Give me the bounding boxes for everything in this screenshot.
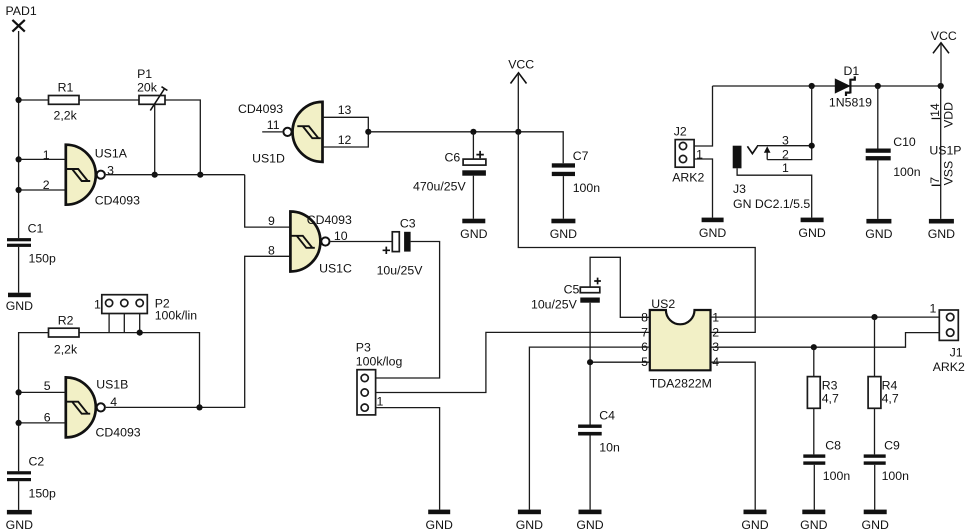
svg-text:C1: C1	[28, 221, 44, 235]
wire J2 bottom pin to ground	[694, 159, 712, 218]
svg-text:7: 7	[928, 177, 942, 184]
svg-text:1: 1	[377, 394, 384, 408]
svg-text:D1: D1	[844, 64, 860, 78]
capacitor C9	[864, 439, 900, 465]
capacitor C3 polarized	[383, 217, 416, 255]
pin 1 wire J3 to ground	[737, 168, 812, 217]
pin 13 and 12 wires tied	[323, 117, 369, 147]
svg-text:GND: GND	[6, 299, 33, 313]
svg-text:2: 2	[43, 178, 50, 192]
svg-text:10u/25V: 10u/25V	[377, 263, 424, 277]
ground under C8	[800, 510, 827, 532]
svg-text:10n: 10n	[599, 440, 620, 454]
svg-text:14: 14	[928, 103, 942, 117]
node junction wiper on output	[152, 172, 158, 178]
svg-text:470u/25V: 470u/25V	[413, 180, 466, 194]
wire C3 to P3 pin top	[376, 242, 440, 379]
node junction C10 tap	[875, 83, 881, 89]
svg-text:100k/log: 100k/log	[356, 354, 403, 368]
svg-text:100n: 100n	[823, 469, 851, 483]
svg-text:2,2k: 2,2k	[54, 343, 78, 357]
svg-text:2: 2	[782, 147, 789, 161]
wire R4 to C9	[874, 408, 876, 454]
wire P3 wiper to US2 pin 7	[376, 332, 650, 392]
ground under P3	[426, 510, 453, 532]
svg-text:J2: J2	[674, 125, 687, 139]
svg-text:20k: 20k	[137, 81, 158, 95]
wire US1A out to US1C pin 9	[245, 175, 291, 227]
ground under C6	[460, 219, 487, 241]
svg-text:5: 5	[641, 355, 648, 369]
svg-text:2: 2	[712, 325, 719, 339]
node junction on US1B output	[196, 404, 202, 410]
pin 3 output wire US1A	[106, 174, 245, 176]
wire C4 to ground	[589, 436, 591, 510]
capacitor C6	[445, 132, 486, 176]
wire J2 top pin up to diode rail	[694, 86, 712, 146]
resistor R1	[49, 80, 80, 104]
connector J3 barrel jack	[733, 146, 771, 196]
svg-text:R4: R4	[882, 379, 898, 393]
vcc symbol left	[508, 58, 534, 84]
svg-text:150p: 150p	[29, 487, 57, 501]
svg-text:100n: 100n	[893, 165, 921, 179]
svg-text:C9: C9	[884, 439, 900, 453]
svg-text:4,7: 4,7	[882, 392, 899, 406]
node junction pin2 tap	[16, 187, 22, 193]
svg-text:11: 11	[267, 118, 280, 132]
svg-text:GND: GND	[798, 226, 825, 240]
capacitor C8	[803, 439, 841, 465]
svg-text:C10: C10	[893, 135, 916, 149]
node junction VCC right	[938, 83, 944, 89]
capacitor C4	[578, 409, 615, 436]
nand gate US1B	[66, 377, 129, 437]
ground under C1	[6, 293, 33, 313]
svg-text:5: 5	[44, 379, 51, 393]
node junction pin 5 tap	[587, 359, 593, 365]
wire C1 to ground	[18, 247, 20, 293]
potentiometer P1	[137, 67, 167, 111]
svg-text:CD4093: CD4093	[307, 213, 352, 227]
node junction US1D inputs	[365, 129, 371, 135]
wire C8 to ground	[813, 465, 815, 510]
svg-text:GND: GND	[576, 518, 603, 532]
node junction VCC tap	[515, 129, 521, 135]
nand gate US1C	[290, 212, 352, 276]
ground pin 4	[741, 510, 768, 532]
power pins US1P	[929, 86, 961, 219]
ground under C10	[865, 219, 892, 241]
pin 11 stub wire	[262, 131, 282, 133]
pin 5 wire US1B	[19, 391, 66, 393]
svg-text:VSS: VSS	[942, 161, 956, 186]
svg-text:US1C: US1C	[319, 262, 352, 276]
svg-text:PAD1: PAD1	[6, 4, 37, 18]
wire P1 wiper down	[154, 104, 156, 174]
svg-text:GND: GND	[865, 227, 892, 241]
svg-text:13: 13	[338, 103, 352, 117]
resistor R2	[49, 314, 80, 338]
svg-text:CD4093: CD4093	[238, 102, 283, 116]
wire US2 pin 1 to J1	[711, 316, 940, 318]
svg-text:C2: C2	[29, 455, 45, 469]
node junction C6 tap	[470, 129, 476, 135]
svg-text:100n: 100n	[882, 469, 910, 483]
wire PAD1 down to C1	[18, 31, 20, 238]
wire US1C pin 8 down to US1B output	[106, 256, 291, 407]
svg-text:1: 1	[930, 301, 937, 315]
wire VCC down and feed rail to US2 pin 2	[518, 75, 755, 333]
wire R3 to C8	[813, 408, 815, 454]
svg-text:150p: 150p	[29, 251, 57, 265]
diode D1 schottky	[835, 64, 860, 96]
svg-text:GND: GND	[6, 518, 33, 532]
svg-text:GND: GND	[426, 518, 453, 532]
connector J1	[939, 310, 962, 360]
wire R2 left branch down to US1B inputs and C2	[19, 333, 49, 472]
svg-text:8: 8	[268, 243, 275, 257]
svg-text:1N5819: 1N5819	[829, 96, 872, 110]
node junction R4 tap	[871, 314, 877, 320]
svg-text:10u/25V: 10u/25V	[531, 298, 578, 312]
node junction P1 end on output	[197, 172, 203, 178]
ground under C4	[576, 510, 603, 532]
pin 2 wire US1A	[19, 189, 66, 191]
nand gate US1D (mirrored)	[252, 102, 322, 166]
svg-text:GND: GND	[516, 518, 543, 532]
capacitor C7	[552, 149, 589, 176]
wire US2 pin 6 to ground	[529, 347, 649, 510]
node junction pin5	[16, 389, 22, 395]
svg-text:VDD: VDD	[942, 102, 956, 128]
svg-text:3: 3	[107, 164, 114, 178]
ground under C9	[862, 510, 889, 532]
wire C5 down to C4 and US2 pin 5	[590, 303, 650, 425]
node junction P2 pin3	[137, 330, 143, 336]
svg-text:1: 1	[94, 298, 101, 312]
wire US2 pin 4 to ground	[711, 362, 756, 509]
node junction pin6	[16, 420, 22, 426]
node junction J3 pin3 tap	[809, 83, 815, 89]
node junction pin1 tap	[16, 156, 22, 162]
svg-text:GN DC2.1/5.5: GN DC2.1/5.5	[733, 197, 810, 211]
pin 2 wire J3	[767, 146, 812, 160]
svg-text:7: 7	[641, 325, 648, 339]
ground under C7	[550, 219, 577, 241]
svg-text:6: 6	[44, 410, 51, 424]
pin 3 wire J3	[757, 86, 812, 146]
wire R1 to P1	[79, 99, 139, 101]
wire C2 to ground	[18, 481, 20, 510]
wire diode rail	[713, 85, 941, 87]
svg-text:R2: R2	[58, 314, 74, 328]
capacitor C10	[866, 86, 916, 160]
svg-text:US2: US2	[651, 297, 675, 311]
svg-text:C6: C6	[445, 151, 461, 165]
svg-text:US1P: US1P	[929, 144, 961, 158]
node junction R1 tap	[16, 97, 22, 103]
svg-text:P3: P3	[356, 341, 371, 355]
wire C10 to ground	[877, 160, 879, 219]
wire US2 pin 3 to J1	[711, 333, 940, 348]
wire C6 to ground	[472, 176, 474, 219]
svg-text:US1B: US1B	[96, 378, 128, 392]
vcc symbol right	[931, 29, 957, 54]
connector J2	[674, 125, 694, 168]
svg-text:GND: GND	[928, 227, 955, 241]
wire R2 right to P2 net down to US1B output	[79, 333, 200, 408]
svg-text:CD4093: CD4093	[96, 426, 141, 440]
svg-text:C8: C8	[825, 439, 841, 453]
ground pin 6	[516, 510, 543, 532]
svg-text:R3: R3	[822, 379, 838, 393]
ground under C2	[6, 510, 33, 532]
wire P3 bottom to ground	[376, 408, 440, 510]
svg-text:GND: GND	[741, 518, 768, 532]
svg-text:VCC: VCC	[931, 29, 957, 43]
svg-text:1: 1	[43, 148, 50, 162]
ground under J2	[699, 218, 726, 241]
svg-text:C4: C4	[599, 409, 615, 423]
ic US2 TDA2822M	[650, 297, 711, 370]
svg-text:VCC: VCC	[508, 58, 534, 72]
wire P2 pin risers	[109, 314, 140, 333]
svg-text:GND: GND	[800, 518, 827, 532]
connector P2	[102, 295, 170, 314]
wire C9 to ground	[874, 465, 876, 510]
svg-text:GND: GND	[699, 226, 726, 240]
svg-text:ARK2: ARK2	[672, 171, 704, 185]
node junction J3 pins	[809, 143, 815, 149]
svg-text:C5: C5	[564, 282, 580, 296]
ground under US1P	[928, 219, 955, 241]
svg-text:GND: GND	[862, 518, 889, 532]
nand gate US1A	[66, 145, 128, 205]
svg-text:J1: J1	[950, 346, 963, 360]
svg-text:3: 3	[782, 133, 789, 147]
svg-text:GND: GND	[460, 227, 487, 241]
svg-text:TDA2822M: TDA2822M	[650, 376, 712, 390]
svg-text:US1A: US1A	[95, 147, 128, 161]
resistor R4	[868, 317, 897, 408]
node junction R3 tap	[811, 344, 817, 350]
pin 10 output wire to C3	[331, 241, 393, 243]
capacitor C2	[7, 455, 44, 482]
svg-text:100n: 100n	[573, 181, 601, 195]
resistor R3	[807, 347, 837, 408]
svg-text:R1: R1	[58, 80, 74, 94]
svg-text:J3: J3	[733, 182, 746, 196]
ground under J3	[798, 218, 825, 241]
capacitor C5 polarized	[564, 257, 650, 317]
wire P1 right then down to output net	[165, 100, 200, 175]
svg-text:P1: P1	[137, 67, 152, 81]
svg-text:C3: C3	[400, 217, 416, 231]
pin 1 wire US1A	[19, 158, 66, 160]
svg-text:8: 8	[641, 310, 648, 324]
svg-text:GND: GND	[550, 227, 577, 241]
connector P3	[356, 341, 376, 415]
pin 6 wire US1B	[19, 422, 66, 424]
svg-text:12: 12	[338, 133, 352, 147]
svg-text:US1D: US1D	[252, 152, 285, 166]
wire C7 to ground	[562, 176, 564, 219]
wire oscillator rail to C7	[368, 132, 563, 164]
capacitor C1	[7, 221, 43, 247]
svg-text:ARK2: ARK2	[933, 360, 965, 374]
svg-text:CD4093: CD4093	[95, 193, 140, 207]
svg-text:4: 4	[110, 395, 117, 409]
wire VCC right down	[940, 45, 942, 87]
svg-text:9: 9	[268, 214, 275, 228]
svg-text:1: 1	[782, 161, 789, 175]
svg-text:4,7: 4,7	[822, 392, 839, 406]
wire to R1	[19, 99, 49, 101]
svg-text:100k/lin: 100k/lin	[155, 308, 198, 322]
svg-text:C7: C7	[573, 149, 589, 163]
pad PAD1	[6, 4, 37, 32]
svg-text:2,2k: 2,2k	[54, 109, 78, 123]
